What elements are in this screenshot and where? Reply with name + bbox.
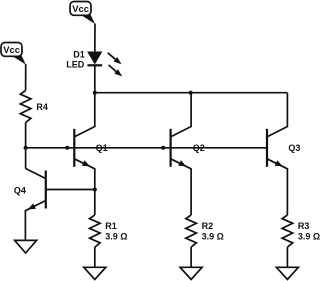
value label R3 3.9 ohm [298, 232, 320, 242]
label Q1 [96, 143, 108, 153]
label R1 [105, 221, 117, 231]
wire Vcc flag to D1 anode [94, 24, 96, 53]
wire R4 to base rail [25, 123, 27, 148]
diode D1 LED symbol [87, 52, 102, 65]
label LED [66, 60, 85, 70]
wire R3 to ground [286, 247, 288, 267]
wire base rail down to Q4 collector [25, 148, 27, 169]
value label R1 3.9 ohm [105, 232, 127, 242]
junction dot: base rail at Q1 base pin [65, 146, 69, 150]
ground symbol at R1 [84, 267, 106, 279]
resistor R4 [20, 91, 31, 123]
wire Vcc flag to R4 [25, 64, 27, 91]
svg-text:R3: R3 [298, 221, 310, 231]
LED light arrow 2 [109, 65, 123, 77]
junction dot: base rail at Q2 base pin [161, 146, 165, 150]
wire D1 cathode to collector bus [94, 65, 96, 92]
ground symbol at Q4 emitter [15, 240, 37, 253]
resistor R2 [186, 215, 197, 247]
resistor R1 [90, 215, 101, 247]
junction dot: bus at Q2 collector [189, 91, 193, 95]
label Q3 [288, 143, 300, 153]
label Q2 [193, 143, 205, 153]
wire R2 to ground [190, 247, 192, 267]
svg-text:R2: R2 [202, 221, 214, 231]
value label R2 3.9 ohm [202, 232, 224, 242]
svg-text:3.9 Ω: 3.9 Ω [202, 232, 224, 242]
collector bus wire (node LED cathode / Q1 Q2 Q3 collectors) [95, 92, 288, 94]
junction dot: bus at Q1 collector / D1 [93, 91, 97, 95]
wire Q1 emitter node to R1 [94, 190, 96, 216]
transistor Q4 (NPN, mirrored) [25, 168, 94, 240]
ground symbol at R2 [180, 267, 202, 279]
label R3 [298, 221, 310, 231]
label Q4 [14, 185, 26, 195]
svg-text:R4: R4 [36, 102, 48, 112]
LED light arrow 1 [108, 53, 122, 65]
junction dot: Q4 base / Q1 emitter / R1 node [93, 188, 97, 192]
base rail wire (bases of Q1 Q2 Q3, R4, Q4 collector) [26, 147, 267, 149]
junction dot: base rail at R4 / Q4 collector [24, 146, 28, 150]
label D1 [73, 50, 85, 60]
svg-text:Q4: Q4 [14, 185, 26, 195]
svg-text:Q2: Q2 [193, 143, 205, 153]
svg-text:3.9 Ω: 3.9 Ω [298, 232, 320, 242]
Vcc supply flag (top, feeds D1) [70, 2, 95, 25]
resistor R3 [282, 215, 293, 247]
transistor Q1 (NPN) [74, 93, 95, 190]
Vcc supply flag (left, feeds R4) [1, 43, 26, 65]
transistor Q2 (NPN) [171, 93, 192, 215]
svg-text:LED: LED [66, 60, 85, 70]
svg-text:Vcc: Vcc [3, 44, 20, 55]
wire R1 to ground [94, 247, 96, 267]
transistor Q3 (NPN) [267, 93, 287, 215]
svg-text:Vcc: Vcc [72, 3, 89, 14]
svg-text:D1: D1 [73, 50, 85, 60]
svg-text:Q1: Q1 [96, 143, 108, 153]
svg-text:Q3: Q3 [288, 143, 300, 153]
label R4 [36, 102, 48, 112]
ground symbol at R3 [276, 267, 298, 279]
label R2 [202, 221, 214, 231]
svg-text:3.9 Ω: 3.9 Ω [105, 232, 127, 242]
svg-text:R1: R1 [105, 221, 117, 231]
